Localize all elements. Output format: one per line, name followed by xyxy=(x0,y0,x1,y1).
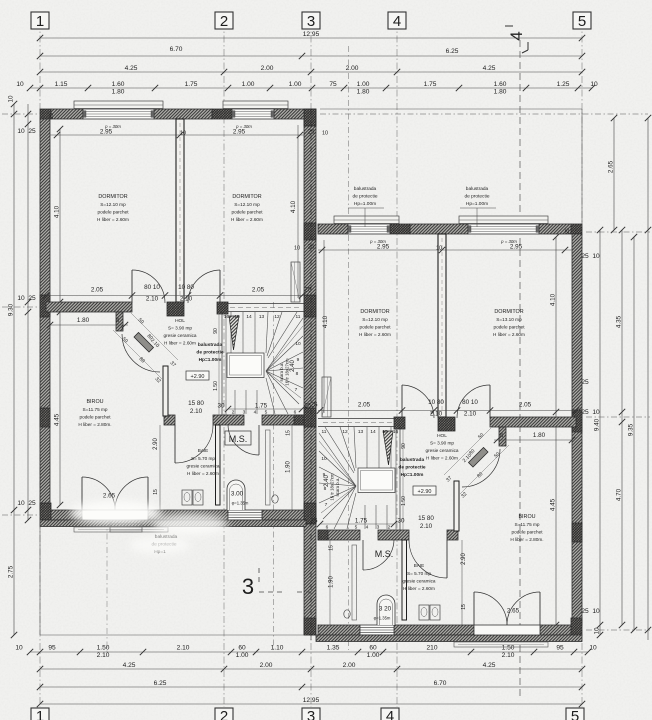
svg-text:10: 10 xyxy=(592,253,600,260)
svg-text:S= 5.70 mp: S= 5.70 mp xyxy=(407,571,431,576)
right unit: window W2 top xyxy=(348,224,390,234)
grid marker 4-prime rotated top xyxy=(505,26,528,53)
left unit: bottom wall segment a xyxy=(51,510,82,520)
left unit: flue shaft xyxy=(291,262,300,302)
left unit: staircase tread numbers top xyxy=(224,314,301,320)
floor label bracket xyxy=(259,568,311,592)
svg-text:2: 2 xyxy=(232,410,235,416)
scan blob 2 xyxy=(152,514,228,534)
left unit: baie east wall xyxy=(216,425,221,505)
right unit: top wall segment b xyxy=(410,224,468,234)
right unit: ms door xyxy=(363,540,394,570)
svg-text:2.10: 2.10 xyxy=(502,652,515,659)
dim row 6.70/6.25 top xyxy=(37,46,585,59)
party wall block y223 xyxy=(304,223,316,240)
svg-text:15 80: 15 80 xyxy=(188,400,204,407)
svg-text:1.50: 1.50 xyxy=(213,381,219,391)
party wall block y618 xyxy=(304,618,316,635)
svg-text:+2.90: +2.90 xyxy=(418,489,432,495)
right unit: lower wall segment b xyxy=(378,530,409,540)
svg-text:podele parchet: podele parchet xyxy=(97,210,129,215)
left unit: staircase dim 90 xyxy=(213,328,219,391)
svg-text:4.25: 4.25 xyxy=(123,662,136,669)
svg-text:1: 1 xyxy=(36,708,44,720)
svg-text:2.10: 2.10 xyxy=(464,411,477,418)
svg-text:5: 5 xyxy=(265,410,268,416)
svg-text:4.25: 4.25 xyxy=(483,662,496,669)
left unit: hol diagonal wall chunk xyxy=(134,333,154,353)
svg-text:1.60: 1.60 xyxy=(112,81,125,88)
grid axis 1 xyxy=(39,22,41,707)
right unit: terrace slab band xyxy=(316,635,582,642)
right unit: wc xyxy=(344,610,350,618)
svg-text:1.15: 1.15 xyxy=(55,81,68,88)
svg-text:H liber = 2.80m.: H liber = 2.80m. xyxy=(510,537,543,542)
left unit: level +2.90 xyxy=(186,371,209,380)
svg-text:10: 10 xyxy=(16,81,24,88)
svg-text:90: 90 xyxy=(213,328,219,334)
svg-text:4: 4 xyxy=(366,525,369,531)
svg-text:95: 95 xyxy=(556,645,564,652)
svg-text:2.10: 2.10 xyxy=(430,411,443,418)
left unit: lower wall dark block xyxy=(294,415,304,425)
left unit: staircase bottom dim line xyxy=(225,406,305,412)
svg-text:15: 15 xyxy=(286,430,292,436)
svg-text:10 80: 10 80 xyxy=(178,284,194,291)
svg-text:25: 25 xyxy=(581,409,589,416)
svg-text:12: 12 xyxy=(274,314,280,320)
terrace NE boundary xyxy=(320,109,582,227)
left unit: baie text xyxy=(186,448,219,476)
right unit: top wall segment a xyxy=(539,224,571,234)
dim col 4.10/4.45 right inner xyxy=(550,234,560,628)
svg-text:10 80: 10 80 xyxy=(428,399,444,406)
svg-text:6.25: 6.25 xyxy=(154,680,167,687)
svg-text:9: 9 xyxy=(297,357,300,363)
svg-text:4.70: 4.70 xyxy=(616,488,623,501)
left unit: diag dim lines xyxy=(113,313,178,379)
svg-text:2.05: 2.05 xyxy=(358,402,371,409)
left unit: french door leaves xyxy=(82,477,148,510)
right unit: hol diagonal wall chunk xyxy=(469,448,489,468)
svg-text:7: 7 xyxy=(325,502,328,508)
svg-text:balustrada: balustrada xyxy=(354,186,377,192)
left unit: dim row mid wall xyxy=(43,284,312,303)
svg-text:25: 25 xyxy=(581,608,589,615)
svg-text:1: 1 xyxy=(36,13,44,30)
svg-text:de protectie: de protectie xyxy=(398,465,426,471)
dim row 12.95 bottom xyxy=(37,697,585,707)
svg-text:25: 25 xyxy=(115,317,120,323)
svg-text:15 80: 15 80 xyxy=(418,515,434,522)
dim row 6.25/6.70 bottom xyxy=(37,680,585,690)
svg-text:1.35: 1.35 xyxy=(327,645,340,652)
grid axis 4 xyxy=(396,22,398,707)
svg-text:25: 25 xyxy=(49,113,55,119)
right unit: ms inner screen xyxy=(352,545,357,620)
svg-text:2.10: 2.10 xyxy=(180,296,193,303)
right unit: baie east wall xyxy=(402,540,407,620)
right unit: window W1 sill xyxy=(459,216,548,224)
svg-text:95: 95 xyxy=(48,645,56,652)
right unit: balustrada hol text xyxy=(398,457,426,478)
svg-text:10: 10 xyxy=(592,409,600,416)
svg-text:15: 15 xyxy=(461,604,467,610)
svg-text:210: 210 xyxy=(426,645,437,652)
svg-text:H liber = 2.60m: H liber = 2.60m xyxy=(97,217,129,222)
dim row 4.25/2.00 top xyxy=(37,65,585,75)
left unit: terrace boundary xyxy=(40,520,304,635)
svg-text:15: 15 xyxy=(153,489,159,495)
right unit: staircase tread numbers top xyxy=(322,429,399,435)
svg-text:podele parchet: podele parchet xyxy=(511,530,543,535)
svg-text:1.80: 1.80 xyxy=(112,88,125,95)
svg-text:podele parchet: podele parchet xyxy=(79,415,111,420)
left unit: staircase tread numbers bottom xyxy=(232,410,297,416)
svg-text:9.30: 9.30 xyxy=(8,303,15,316)
party wall axis xyxy=(310,109,312,640)
svg-text:4.10: 4.10 xyxy=(322,315,329,328)
right unit: left wall corner block bottom xyxy=(571,618,582,635)
dim col 10-25 left xyxy=(17,104,36,523)
left unit: wc xyxy=(272,495,278,503)
svg-text:30: 30 xyxy=(397,518,405,525)
secondary axis x348 xyxy=(348,46,350,650)
svg-text:1.60: 1.60 xyxy=(494,81,507,88)
left unit: baie door xyxy=(175,425,213,463)
right unit: dim col ms xyxy=(329,540,335,625)
svg-text:10: 10 xyxy=(594,627,601,635)
party wall block y503 xyxy=(304,503,316,524)
right unit: dim 3.00 xyxy=(374,606,392,621)
right unit: left wall junction block lower xyxy=(572,523,582,542)
svg-text:4.10: 4.10 xyxy=(54,205,61,218)
svg-text:25: 25 xyxy=(28,500,36,507)
svg-text:25: 25 xyxy=(28,295,36,302)
left unit: birou text xyxy=(78,399,111,427)
right unit: french door opening xyxy=(474,625,540,635)
svg-text:S=12.10 mp: S=12.10 mp xyxy=(100,202,126,207)
svg-text:podele parchet: podele parchet xyxy=(231,210,263,215)
balustrada text NE 1 xyxy=(348,186,384,227)
left unit: lower wall segment b xyxy=(213,415,244,425)
left unit: balcony slab xyxy=(74,527,168,532)
svg-text:podele parchet: podele parchet xyxy=(493,325,525,330)
svg-text:2.05: 2.05 xyxy=(91,287,104,294)
right unit: staircase cut triangle xyxy=(383,431,393,465)
svg-text:11: 11 xyxy=(322,429,327,435)
svg-text:1.00: 1.00 xyxy=(236,652,249,659)
svg-text:2.10: 2.10 xyxy=(420,523,433,530)
svg-text:4.10: 4.10 xyxy=(550,293,557,306)
right unit: bedroom door 1 xyxy=(457,385,490,418)
right unit: lower wall segment a xyxy=(447,530,458,540)
svg-text:2.95: 2.95 xyxy=(100,129,113,136)
svg-text:2.95: 2.95 xyxy=(377,244,390,251)
left unit: lower wall segment c xyxy=(262,415,304,425)
party wall block y408 xyxy=(304,408,316,427)
left unit: mid wall segment a xyxy=(46,302,132,312)
left unit: french door opening xyxy=(82,510,148,520)
dim col 2.65 right xyxy=(608,115,618,233)
svg-text:2.05: 2.05 xyxy=(252,287,265,294)
svg-text:2.05: 2.05 xyxy=(519,402,532,409)
left unit: mid wall pier xyxy=(167,302,184,316)
right unit: bedroom door 2 xyxy=(402,385,434,418)
left unit: bottom wall segment c xyxy=(262,510,304,520)
right unit: bottom wall segment c xyxy=(318,625,360,635)
svg-text:13: 13 xyxy=(358,429,364,435)
svg-text:3: 3 xyxy=(307,13,315,30)
svg-text:gresie ceramica: gresie ceramica xyxy=(402,579,435,584)
left unit: window W2 sill xyxy=(223,101,288,109)
right unit: left wall junction block mid xyxy=(572,410,582,432)
svg-text:80 10: 80 10 xyxy=(144,284,160,291)
left unit: bedroom partition wall xyxy=(176,119,184,302)
left unit: terrace balustrada text xyxy=(151,534,177,555)
left unit: bedroom door 2 xyxy=(188,270,220,303)
svg-text:6.70: 6.70 xyxy=(434,680,447,687)
svg-text:2.10: 2.10 xyxy=(97,652,110,659)
grid marker 4 top xyxy=(388,12,406,30)
right unit: baie text xyxy=(402,563,435,591)
svg-text:Hp=1.00m: Hp=1.00m xyxy=(199,357,222,363)
right unit: washbasin xyxy=(419,605,440,620)
right unit: birou door arc xyxy=(462,449,500,487)
svg-text:16 tr 18x27cm: 16 tr 18x27cm xyxy=(285,358,290,386)
right unit: dim row mid wall xyxy=(310,399,579,418)
svg-text:2.10: 2.10 xyxy=(146,296,159,303)
svg-text:80 10: 80 10 xyxy=(462,399,478,406)
right unit: dim row lower wall xyxy=(310,515,434,530)
svg-text:25: 25 xyxy=(565,228,571,234)
svg-text:10: 10 xyxy=(322,131,328,137)
svg-text:DORMITOR: DORMITOR xyxy=(98,194,127,200)
svg-text:25: 25 xyxy=(310,518,318,525)
svg-text:S=11.75 mp: S=11.75 mp xyxy=(82,407,107,412)
dim col 9.35 right outer xyxy=(628,234,638,633)
svg-text:1.75: 1.75 xyxy=(355,518,368,525)
right unit: hol text xyxy=(425,433,458,461)
svg-text:balustrada: balustrada xyxy=(198,342,223,348)
svg-text:scara b.a.: scara b.a. xyxy=(279,363,284,382)
svg-text:S= 3.90 mp: S= 3.90 mp xyxy=(430,441,454,446)
svg-text:S= 3.90 mp: S= 3.90 mp xyxy=(168,326,192,331)
svg-text:1.80: 1.80 xyxy=(533,432,546,439)
svg-text:3.00: 3.00 xyxy=(231,491,244,498)
left unit: hol text xyxy=(163,318,196,346)
svg-text:3: 3 xyxy=(377,525,380,531)
secondary axis x273 xyxy=(273,302,275,650)
svg-text:M.S.: M.S. xyxy=(229,434,248,444)
svg-text:14: 14 xyxy=(246,314,252,320)
svg-text:2.40: 2.40 xyxy=(324,475,330,487)
grid marker 3 top xyxy=(302,12,320,30)
svg-text:DORMITOR: DORMITOR xyxy=(232,194,261,200)
svg-text:S=13.10 mp: S=13.10 mp xyxy=(496,317,522,322)
right unit: dormitor 1 text xyxy=(493,309,525,337)
right unit: mid wall block b xyxy=(394,417,405,429)
left unit: birou dim 1.80 xyxy=(47,317,128,328)
balustrada text NE 2 xyxy=(460,186,496,227)
left unit: hol stub wall xyxy=(116,312,123,331)
svg-text:2.65: 2.65 xyxy=(507,608,520,615)
right unit: window W2 sill xyxy=(334,216,399,224)
svg-text:2: 2 xyxy=(220,13,228,30)
svg-text:de protectie: de protectie xyxy=(352,194,377,200)
svg-text:BIROU: BIROU xyxy=(86,399,103,405)
left unit: terrace steps xyxy=(110,520,142,532)
svg-text:BAIE: BAIE xyxy=(198,448,208,453)
svg-text:DORMITOR: DORMITOR xyxy=(494,309,523,315)
svg-text:H liber = 2.60m: H liber = 2.60m xyxy=(187,471,219,476)
svg-text:14: 14 xyxy=(370,429,376,435)
svg-text:60: 60 xyxy=(238,645,246,652)
svg-text:de protectie: de protectie xyxy=(196,350,224,356)
svg-text:10: 10 xyxy=(589,645,597,652)
svg-text:1.25: 1.25 xyxy=(557,81,570,88)
svg-text:12: 12 xyxy=(342,429,348,435)
svg-text:3 20: 3 20 xyxy=(379,606,392,613)
party wall xyxy=(304,109,316,635)
left unit: dim 2.65 at french door xyxy=(103,493,116,500)
right unit: bottom wall segment a xyxy=(540,625,571,635)
grid marker 1 top xyxy=(31,12,49,30)
axis ext y307 left xyxy=(2,306,40,308)
right unit: diag dim lines xyxy=(444,428,509,494)
right unit: bedroom partition wall xyxy=(438,234,446,417)
right unit: dormitor 2 text xyxy=(359,309,391,337)
right unit: top wall corner block xyxy=(571,224,582,234)
svg-text:S=11.75 mp: S=11.75 mp xyxy=(514,522,539,527)
svg-text:6.25: 6.25 xyxy=(446,48,459,55)
svg-text:3: 3 xyxy=(307,708,315,720)
svg-text:1.00: 1.00 xyxy=(367,652,380,659)
left unit: bedroom door 1 xyxy=(132,270,165,303)
left unit: staircase side numbers xyxy=(295,341,301,393)
dim row windows bottom xyxy=(15,645,597,660)
svg-text:9.35: 9.35 xyxy=(628,423,635,436)
left unit: dim row lower wall xyxy=(188,400,312,415)
svg-text:1.10: 1.10 xyxy=(271,645,284,652)
left unit: window W3 bottom xyxy=(228,510,262,520)
svg-text:6: 6 xyxy=(294,410,297,416)
svg-text:4.45: 4.45 xyxy=(550,498,557,511)
right unit: mid wall segment a xyxy=(490,417,576,427)
svg-text:2.00: 2.00 xyxy=(261,65,274,72)
svg-text:10: 10 xyxy=(436,246,442,252)
grid marker 2 top xyxy=(215,12,233,30)
scan blob 1 xyxy=(70,501,162,525)
grid marker 1 bottom xyxy=(31,708,49,720)
party wall block y295 xyxy=(304,295,316,317)
svg-text:25: 25 xyxy=(304,287,312,294)
svg-text:1.00: 1.00 xyxy=(289,81,302,88)
left unit: ms door xyxy=(228,425,259,455)
svg-text:HOL: HOL xyxy=(175,318,185,324)
svg-text:5: 5 xyxy=(578,13,586,30)
grid marker 3 bottom xyxy=(302,708,320,720)
svg-text:25: 25 xyxy=(28,128,36,135)
left unit: dim col room2 xyxy=(290,125,298,298)
left unit: left wall xyxy=(40,119,50,510)
svg-text:15: 15 xyxy=(382,429,388,435)
left unit: lower wall segment a xyxy=(164,415,175,425)
right unit: mid wall over stair xyxy=(318,419,394,427)
right unit: flue shaft xyxy=(322,377,331,417)
floor label 3 xyxy=(242,574,254,599)
svg-text:25: 25 xyxy=(581,379,589,386)
svg-text:H liber = 2.80m.: H liber = 2.80m. xyxy=(78,422,111,427)
svg-text:2.00: 2.00 xyxy=(343,662,356,669)
svg-text:2.90: 2.90 xyxy=(461,553,467,565)
right unit: bottom wall segment b xyxy=(394,625,474,635)
svg-text:2.00: 2.00 xyxy=(346,65,359,72)
grid marker 5 bottom xyxy=(566,708,584,720)
svg-text:H liber = 2.60m: H liber = 2.60m xyxy=(403,586,435,591)
dim col 4.10/4.45 left inner xyxy=(54,126,64,508)
dim col 4.35/4.70 right xyxy=(616,227,626,628)
svg-text:1.75: 1.75 xyxy=(255,403,268,410)
dim row 12.95 top xyxy=(37,31,585,41)
axis ext y515 left xyxy=(2,514,40,516)
svg-text:25: 25 xyxy=(499,432,504,438)
svg-text:15: 15 xyxy=(234,314,240,320)
right unit: lower wall dark block xyxy=(318,530,328,540)
left unit: dim row bedrooms xyxy=(49,113,328,138)
svg-text:φ=1.35m: φ=1.35m xyxy=(374,616,391,621)
svg-text:10: 10 xyxy=(8,95,15,103)
right unit: french door leaves xyxy=(474,592,540,625)
right unit: staircase dim 90 xyxy=(401,443,407,506)
svg-text:1.80: 1.80 xyxy=(494,88,507,95)
svg-text:S= 5.70 mp: S= 5.70 mp xyxy=(191,456,215,461)
grid axis 3 xyxy=(310,22,312,707)
left unit: dim col baie xyxy=(153,425,160,510)
svg-text:5: 5 xyxy=(355,525,358,531)
svg-text:12.95: 12.95 xyxy=(303,31,320,38)
left unit: left wall junction block mid xyxy=(40,295,50,317)
dim col 9.40 right xyxy=(594,227,604,638)
svg-text:10: 10 xyxy=(180,131,186,137)
party wall block y109 xyxy=(304,109,316,126)
grid axis 4-prime dashed xyxy=(519,40,521,700)
svg-text:H liber = 2.60m: H liber = 2.60m xyxy=(164,341,196,346)
svg-text:25: 25 xyxy=(307,244,315,251)
left unit: mid wall over stair xyxy=(228,304,304,312)
right unit: top wall pier block xyxy=(390,224,410,234)
svg-text:BIROU: BIROU xyxy=(518,514,535,520)
dim row 4.25/2.00 bottom xyxy=(37,662,585,672)
right unit: staircase tread numbers bottom xyxy=(326,525,391,531)
dim row windows top xyxy=(16,81,598,96)
svg-text:4.25: 4.25 xyxy=(125,65,138,72)
axis ext y417 right xyxy=(586,416,650,418)
svg-text:11: 11 xyxy=(296,314,301,320)
svg-text:balustrada: balustrada xyxy=(466,186,489,192)
svg-text:60: 60 xyxy=(369,645,377,652)
dim col 9.30 left xyxy=(8,95,18,638)
dim col far right xyxy=(645,115,651,640)
svg-text:6: 6 xyxy=(326,525,329,531)
left unit: top wall pier block xyxy=(212,109,232,119)
svg-text:2.10: 2.10 xyxy=(177,645,190,652)
right unit: dim col room2 xyxy=(322,240,329,413)
right unit: lower wall segment c xyxy=(318,530,360,540)
right unit: staircase bottom dim line xyxy=(317,521,397,527)
svg-text:4: 4 xyxy=(386,708,394,720)
left unit: top wall corner block xyxy=(40,109,51,119)
